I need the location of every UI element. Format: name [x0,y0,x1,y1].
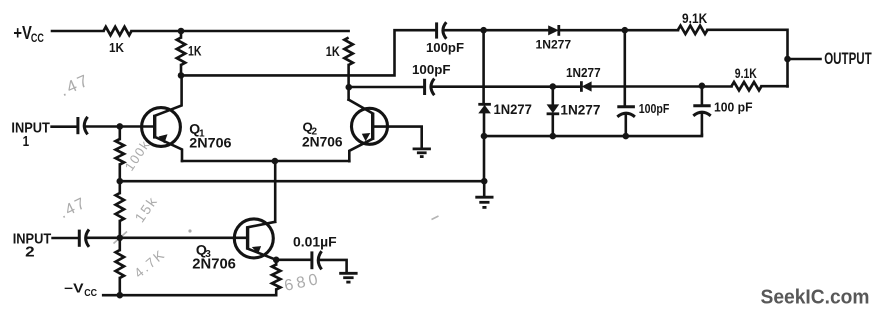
svg-text:2N706: 2N706 [189,136,231,152]
svg-text:1N277: 1N277 [536,38,572,52]
svg-text:1: 1 [23,133,30,150]
svg-text:9.1K: 9.1K [682,11,707,26]
svg-text:100pF: 100pF [412,62,451,77]
svg-text:1K: 1K [109,41,124,55]
svg-text:SeekIC.com: SeekIC.com [761,285,870,308]
svg-text:−V: −V [64,281,84,295]
svg-text:2N706: 2N706 [302,135,343,151]
svg-text:INPUT: INPUT [11,120,50,137]
svg-text:CC: CC [31,31,44,45]
svg-text:100pF: 100pF [639,102,670,116]
svg-text:+V: +V [13,22,32,43]
svg-text:0.01µF: 0.01µF [293,234,337,250]
svg-text:1N277: 1N277 [494,102,532,118]
svg-text:CC: CC [84,288,97,299]
svg-text:9.1K: 9.1K [735,66,757,81]
svg-text:100pF: 100pF [426,40,464,55]
svg-text:1K: 1K [326,44,340,59]
svg-text:2N706: 2N706 [192,256,236,273]
svg-text:2: 2 [25,243,35,260]
svg-text:1K: 1K [188,44,202,59]
svg-text:1N277: 1N277 [560,103,600,119]
svg-text:100 pF: 100 pF [714,100,753,114]
svg-text:OUTPUT: OUTPUT [824,50,872,68]
svg-text:1N277: 1N277 [566,66,601,80]
